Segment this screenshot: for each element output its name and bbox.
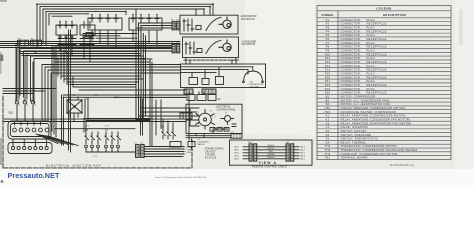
- wire horizontal bus mid-left: [0, 34, 180, 63]
- connector P1 P2 pair: [136, 145, 145, 158]
- relay terminal box lower A: [56, 21, 77, 35]
- svg-text:P2: P2: [326, 22, 330, 26]
- svg-text:P6: P6: [326, 37, 330, 41]
- terminal strip lower: [8, 139, 52, 154]
- svg-text:CONNECTOR,: CONNECTOR,: [341, 52, 361, 56]
- svg-text:PLUG: PLUG: [367, 33, 375, 37]
- wire right risers: [84, 59, 173, 146]
- svg-text:TB3-4: TB3-4: [234, 156, 239, 158]
- svg-text:TH1: TH1: [325, 144, 331, 148]
- svg-text:P1: P1: [135, 143, 137, 145]
- svg-text:P11: P11: [286, 142, 289, 144]
- svg-text:P17: P17: [325, 79, 331, 83]
- svg-text:CONNECTOR,: CONNECTOR,: [341, 79, 361, 83]
- svg-text:CRANKCASE HEATER, COMPRESSOR: CRANKCASE HEATER, COMPRESSOR: [341, 110, 397, 114]
- connector blocks under compressor: [184, 89, 216, 94]
- relay contacts K3: [105, 132, 121, 148]
- label rotary positions: [196, 111, 227, 129]
- svg-text:FAN MOTOR: FAN MOTOR: [242, 43, 256, 46]
- svg-text:P14: P14: [325, 68, 331, 72]
- svg-text:P9: P9: [231, 132, 233, 134]
- svg-text:RED: RED: [269, 151, 274, 153]
- svg-text:THERMOSTAT, COMPRESSOR CRANKCA: THERMOSTAT, COMPRESSOR CRANKCASE HEATER: [341, 148, 418, 152]
- scan artifact right streak: [459, 9, 463, 45]
- svg-text:P12: P12: [325, 60, 331, 64]
- solenoid valve L1 symbol: [188, 139, 195, 149]
- label cable wire colors: [267, 144, 275, 159]
- label view A pin ids: [234, 147, 305, 161]
- svg-text:P7: P7: [326, 41, 330, 45]
- svg-text:S2: S2: [326, 133, 330, 137]
- svg-text:P5: P5: [326, 33, 330, 37]
- svg-text:TB4-2: TB4-2: [300, 150, 305, 152]
- rotary switch S1: [196, 110, 215, 130]
- svg-text:VALVE: VALVE: [198, 143, 205, 146]
- svg-text:SYMBOL: SYMBOL: [321, 13, 334, 17]
- svg-text:FAN MOTOR: FAN MOTOR: [241, 18, 255, 21]
- svg-text:B3: B3: [326, 102, 330, 106]
- svg-text:P9: P9: [326, 48, 330, 52]
- svg-text:TB1: TB1: [325, 156, 331, 160]
- svg-text:P6: P6: [177, 20, 179, 22]
- svg-text:GREEN: GREEN: [267, 154, 275, 156]
- connector P5 P6 pair: [172, 21, 180, 30]
- scan artifact left blob: [0, 55, 3, 62]
- fan circuit box B2: [183, 37, 239, 58]
- node junction dots top bus: [36, 3, 214, 14]
- svg-text:MOTOR: MOTOR: [250, 87, 259, 89]
- svg-text:PLUG: PLUG: [367, 64, 375, 68]
- svg-text:P7: P7: [171, 43, 173, 45]
- scan page background: [0, 0, 474, 187]
- svg-text:CONNECTOR,: CONNECTOR,: [341, 87, 361, 91]
- svg-text:TB4-3: TB4-3: [300, 153, 305, 155]
- svg-text:LEGEND: LEGEND: [376, 6, 392, 10]
- svg-text:P19: P19: [325, 87, 331, 91]
- wire cable conductors: [257, 147, 286, 159]
- svg-text:B1: B1: [326, 94, 330, 98]
- scan noise texture: [0, 0, 474, 169]
- wire nested corner stair left: [20, 49, 146, 104]
- svg-text:CONNECTOR,: CONNECTOR,: [341, 37, 361, 41]
- relay K1 crossed box: [66, 97, 83, 121]
- svg-text:P5: P5: [171, 20, 173, 22]
- svg-text:P10: P10: [248, 142, 251, 144]
- svg-text:7 8 9: 7 8 9: [93, 156, 97, 158]
- svg-text:HR1: HR1: [324, 110, 330, 114]
- svg-text:ELECTRICAL: ELECTRICAL: [217, 106, 232, 109]
- svg-text:RECEPTACLE: RECEPTACLE: [367, 52, 387, 56]
- svg-text:K1: K1: [326, 114, 330, 118]
- svg-text:RECEPTACLE: RECEPTACLE: [367, 91, 387, 95]
- svg-text:Pressauto.NET: Pressauto.NET: [8, 171, 60, 180]
- motor B2: [219, 40, 231, 52]
- svg-text:P4: P4: [326, 29, 330, 33]
- svg-text:P11: P11: [325, 56, 331, 60]
- svg-text:P3: P3: [326, 26, 330, 30]
- svg-text:DESCRIPTION: DESCRIPTION: [383, 13, 406, 17]
- motor B1 dome: [243, 67, 264, 83]
- svg-text:TB4-4: TB4-4: [300, 156, 305, 158]
- svg-text:K3: K3: [326, 121, 330, 125]
- svg-text:RECEPTACLE: RECEPTACLE: [367, 45, 387, 49]
- svg-text:4 5 6: 4 5 6: [105, 126, 109, 128]
- fan circuit box B3: [180, 15, 238, 34]
- svg-text:S1: S1: [326, 129, 330, 133]
- svg-text:CB1: CB1: [8, 111, 14, 115]
- svg-text:PLUG: PLUG: [367, 48, 375, 52]
- wire mid horizontals to control panel: [63, 95, 186, 121]
- small junction block: [86, 33, 93, 38]
- svg-text:P1: P1: [326, 18, 330, 22]
- svg-text:S3: S3: [326, 137, 330, 141]
- svg-text:PLUG: PLUG: [367, 71, 375, 75]
- svg-text:VALVE, SOLENOID: VALVE, SOLENOID: [341, 125, 368, 129]
- svg-text:TH3: TH3: [325, 152, 331, 156]
- relay contacts TB2: [162, 129, 181, 148]
- svg-text:RECEPTACLE: RECEPTACLE: [367, 60, 387, 64]
- svg-text:TB3-1: TB3-1: [234, 147, 239, 149]
- svg-text:VENT: VENT: [196, 123, 200, 125]
- legend table rows: [324, 18, 417, 160]
- svg-text:CONNECTOR,: CONNECTOR,: [341, 22, 361, 26]
- svg-text:RECEPTACLE: RECEPTACLE: [367, 75, 387, 79]
- wire power supply leads: [144, 147, 183, 157]
- svg-text:RELAY, THERMAL: RELAY, THERMAL: [341, 140, 367, 144]
- label contact numbers: [85, 126, 109, 159]
- wire control panel internals: [186, 108, 228, 134]
- svg-text:CONNECTOR,: CONNECTOR,: [341, 68, 361, 72]
- svg-text:ELECTRICAL JUNCTION BOX: ELECTRICAL JUNCTION BOX: [46, 163, 102, 167]
- terminal block TB3: [180, 113, 192, 119]
- svg-text:CONNECTOR,: CONNECTOR,: [341, 71, 361, 75]
- svg-text:PLUG: PLUG: [367, 87, 375, 91]
- svg-text:P15: P15: [325, 71, 331, 75]
- svg-text:CIRCUIT BREAKER (COMPRESSOR MO: CIRCUIT BREAKER (COMPRESSOR MOTOR): [341, 106, 406, 110]
- svg-text:P3: P3: [18, 39, 20, 41]
- dashed unit boundary under fan box: [184, 59, 239, 61]
- svg-text:PLUG: PLUG: [367, 41, 375, 45]
- svg-text:CONNECTOR,: CONNECTOR,: [341, 60, 361, 64]
- svg-text:CONNECTOR,: CONNECTOR,: [341, 83, 361, 87]
- wire CB1 to TB1: [17, 114, 33, 121]
- svg-text:P2: P2: [141, 143, 143, 145]
- svg-text:VIEW A: VIEW A: [259, 161, 278, 165]
- svg-text:RECEPTACLE: RECEPTACLE: [367, 22, 387, 26]
- wire panel to view A: [186, 134, 231, 138]
- svg-text:EVAPORATOR: EVAPORATOR: [241, 15, 257, 18]
- svg-text:-- -- --- - ---- -- --- -- - -: -- -- --- - ---- -- --- -- - --- ---: [95, 1, 156, 3]
- svg-text:B2: B2: [326, 98, 330, 102]
- svg-text:CB1: CB1: [325, 106, 331, 110]
- svg-text:GND: GND: [187, 152, 192, 154]
- svg-text:Figure 5-1. Wiring diagram (S: Figure 5-1. Wiring diagram (Sheet for Mo…: [155, 176, 207, 179]
- svg-text:60 CYCLE: 60 CYCLE: [205, 156, 217, 159]
- wire left edge feeders: [3, 89, 55, 94]
- svg-text:PLUG: PLUG: [367, 56, 375, 60]
- svg-text:S5: S5: [225, 113, 227, 115]
- svg-text:CONNECTOR,: CONNECTOR,: [341, 75, 361, 79]
- svg-text:TB3-5: TB3-5: [234, 159, 239, 161]
- svg-text:RELAY, ARMATURE (COMPRESSOR MO: RELAY, ARMATURE (COMPRESSOR MOTOR): [341, 114, 406, 118]
- wire top nest bus lines: [37, 4, 213, 47]
- svg-text:1 2 3: 1 2 3: [219, 127, 223, 129]
- svg-text:CONNECTOR,: CONNECTOR,: [341, 64, 361, 68]
- compressor unit box: [181, 64, 266, 88]
- svg-text:PLUG: PLUG: [367, 18, 375, 22]
- label P designators: [18, 20, 289, 145]
- svg-text:CONNECTOR,: CONNECTOR,: [341, 33, 361, 37]
- svg-text:K2: K2: [326, 117, 330, 121]
- svg-text:TB2: TB2: [160, 126, 165, 129]
- svg-text:TERMINAL BOARD: TERMINAL BOARD: [341, 156, 368, 160]
- svg-text:P8: P8: [326, 45, 330, 49]
- motor B3: [219, 17, 231, 28]
- thermostat S5: [221, 116, 236, 127]
- svg-text:MOTOR, A.C. (EVAPORATOR FAN): MOTOR, A.C. (EVAPORATOR FAN): [341, 102, 391, 106]
- svg-text:PLUG: PLUG: [367, 26, 375, 30]
- svg-text:SHIELD: SHIELD: [267, 157, 275, 159]
- svg-text:P10: P10: [325, 52, 331, 56]
- svg-text:CONNECTOR,: CONNECTOR,: [341, 45, 361, 49]
- svg-text:PLUG: PLUG: [367, 79, 375, 83]
- svg-text:CONNECTOR,: CONNECTOR,: [341, 29, 361, 33]
- view A connector right: [286, 144, 294, 161]
- svg-text:BLACK: BLACK: [268, 144, 275, 147]
- connector P9 under panel: [231, 134, 242, 138]
- wire diagonal fanout from TB1: [36, 134, 78, 146]
- relay terminal box upper A: [88, 14, 122, 30]
- svg-text:CONNECTOR,: CONNECTOR,: [341, 56, 361, 60]
- svg-text:P8: P8: [177, 43, 179, 45]
- svg-text:CONNECTOR,: CONNECTOR,: [341, 48, 361, 52]
- svg-text:MOTOR, A.C. (CONDENSER FAN): MOTOR, A.C. (CONDENSER FAN): [341, 98, 390, 102]
- svg-text:TB4-5: TB4-5: [300, 159, 305, 161]
- wire vertical bus pairs: [16, 30, 71, 152]
- pressure switch S2 row: [187, 92, 216, 101]
- svg-text:1 2 3: 1 2 3: [85, 126, 89, 128]
- relay contacts K2: [85, 132, 101, 148]
- svg-text:RECEPTACLE: RECEPTACLE: [367, 68, 387, 72]
- svg-text:P20: P20: [325, 91, 331, 95]
- svg-text:P16: P16: [325, 75, 331, 79]
- svg-text:WHITE: WHITE: [268, 148, 275, 150]
- legend table header text: [321, 6, 406, 17]
- svg-text:CONNECTOR,: CONNECTOR,: [341, 26, 361, 30]
- svg-text:TB4-1: TB4-1: [300, 147, 305, 149]
- svg-text:CONNECTOR,: CONNECTOR,: [341, 91, 361, 95]
- relay terminal second row: [58, 36, 94, 45]
- svg-text:CONDENSER: CONDENSER: [242, 41, 257, 43]
- junction box dashed boundary: [3, 96, 192, 168]
- view A detail box: [230, 140, 313, 165]
- svg-text:MI 4738-228-34/5-1 (1): MI 4738-228-34/5-1 (1): [390, 165, 414, 167]
- wire nested corners to compressor: [42, 65, 181, 122]
- circuit breaker CB1: [15, 48, 36, 115]
- svg-text:REMOTE CONTROL CABLE: REMOTE CONTROL CABLE: [252, 166, 287, 169]
- svg-text:RELAY, ARMATURE (CONDENSER FAN: RELAY, ARMATURE (CONDENSER FAN MOTOR): [341, 117, 411, 121]
- relay terminal box upper B: [129, 14, 162, 30]
- node junction dots buses: [35, 33, 151, 123]
- arrowheads power leads: [183, 146, 186, 155]
- terminal board TB1: [8, 121, 51, 139]
- svg-text:SWITCH, THERMOSTATIC: SWITCH, THERMOSTATIC: [341, 137, 379, 141]
- view A connector left: [249, 144, 257, 161]
- svg-text:OVERLOAD, CONDENSER FAN MOTOR: OVERLOAD, CONDENSER FAN MOTOR: [341, 152, 398, 156]
- connector P3 P4 blocks: [18, 40, 42, 46]
- wire vertical bus x137: [136, 9, 146, 122]
- svg-text:CONTROL PANEL: CONTROL PANEL: [217, 108, 237, 111]
- relay terminal box lower B: [80, 22, 95, 36]
- scan artifact left edge marks: [0, 52, 2, 74]
- svg-text:SWITCH, PRESSURE: SWITCH, PRESSURE: [341, 133, 372, 137]
- svg-text:TB3-2: TB3-2: [234, 150, 239, 152]
- wire view A pigtails: [243, 147, 299, 159]
- wire collector below contacts: [86, 148, 135, 152]
- svg-text:THERMOSTAT, COMPRESSOR MOTOR: THERMOSTAT, COMPRESSOR MOTOR: [341, 144, 397, 148]
- svg-text:RECEPTACLE: RECEPTACLE: [367, 37, 387, 41]
- wire drops from relay boxes: [60, 30, 157, 62]
- svg-text:TB3-3: TB3-3: [234, 153, 239, 155]
- svg-text:MOTOR, COMPRESSOR: MOTOR, COMPRESSOR: [341, 94, 376, 98]
- legend table frame: [317, 6, 451, 160]
- svg-text:RECEPTACLE: RECEPTACLE: [367, 29, 387, 33]
- electrical control panel box: [186, 104, 242, 133]
- svg-text:SWITCH, ROTARY: SWITCH, ROTARY: [341, 129, 367, 133]
- wire stagger bus left-mid: [3, 48, 236, 140]
- contact blocks panel bottom: [210, 128, 229, 132]
- connector P7 P8 pair: [172, 44, 180, 53]
- svg-text:P13: P13: [325, 64, 331, 68]
- wire feeds fan connectors: [52, 23, 172, 51]
- svg-text:OFF: OFF: [196, 116, 199, 118]
- svg-text:RELAY, ARMATURE (EVAPORATOR FA: RELAY, ARMATURE (EVAPORATOR FAN MOTOR): [341, 121, 412, 125]
- svg-text:L1: L1: [326, 125, 330, 129]
- svg-text:P18: P18: [325, 83, 331, 87]
- svg-text:CONNECTOR,: CONNECTOR,: [341, 18, 361, 22]
- svg-text:CONNECTOR,: CONNECTOR,: [341, 41, 361, 45]
- svg-text:RECEPTACLE: RECEPTACLE: [367, 83, 387, 87]
- svg-text:S4: S4: [326, 140, 330, 144]
- svg-text:TH2: TH2: [325, 148, 331, 152]
- svg-text:P4: P4: [31, 39, 33, 41]
